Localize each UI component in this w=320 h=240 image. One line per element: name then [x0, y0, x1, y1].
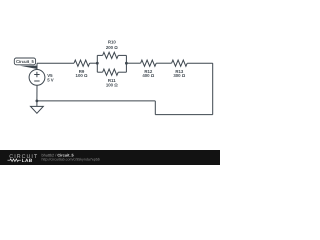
wire left parallel bar: [96, 55, 98, 72]
wire right node to R12: [126, 62, 140, 64]
wire source bottom stub: [36, 85, 38, 101]
svg-text:Circuit_5: Circuit_5: [16, 59, 34, 64]
node junction dot right parallel node: [125, 62, 128, 65]
wire R12 to R13: [156, 62, 171, 64]
wire top from source node to R9: [37, 62, 74, 64]
wire bottom left horizontal to ground node: [37, 100, 155, 102]
V5 minus sign: [34, 80, 39, 82]
wire R13 to right corner: [187, 62, 213, 64]
voltage source V5 body: [29, 70, 45, 86]
resistor R13: [172, 60, 188, 66]
svg-text:100 Ω: 100 Ω: [76, 73, 88, 78]
wire bottom step vertical: [154, 101, 156, 115]
node junction dot left parallel node: [96, 62, 99, 65]
V5 plus sign: [34, 74, 39, 76]
ground stem: [36, 101, 38, 107]
svg-text:5 V: 5 V: [47, 77, 54, 82]
svg-text:200 Ω: 200 Ω: [106, 45, 118, 50]
svg-text:LAB: LAB: [22, 158, 33, 164]
node junction dot ground node: [36, 100, 39, 103]
resistor R11: [103, 69, 119, 75]
svg-text:400 Ω: 400 Ω: [142, 73, 154, 78]
wire bottom branch to right bar: [118, 71, 126, 73]
callout box Circuit_5: [14, 58, 35, 65]
ground symbol triangle: [31, 106, 44, 113]
footer logo resistor squiggle: [8, 159, 21, 162]
svg-text:300 Ω: 300 Ω: [173, 73, 185, 78]
wire top branch lead: [97, 54, 102, 56]
resistor R10: [103, 52, 119, 58]
wire bottom branch lead: [97, 71, 102, 73]
wire top branch to right bar: [118, 54, 126, 56]
resistor R12: [141, 60, 157, 66]
footer bar: [0, 150, 220, 165]
callout tail for Circuit_5 label: [20, 66, 37, 69]
resistor R9: [74, 60, 90, 66]
svg-text:100 Ω: 100 Ω: [106, 83, 118, 88]
wire source top stub: [36, 63, 38, 69]
wire bottom right horizontal: [155, 114, 212, 116]
wire R9 to left node: [90, 62, 98, 64]
wire right vertical: [212, 63, 214, 114]
svg-text:http://circuitlab.com/c/95kynd: http://circuitlab.com/c/95kynda7ep5b: [42, 157, 100, 161]
wire right parallel bar: [125, 55, 127, 72]
